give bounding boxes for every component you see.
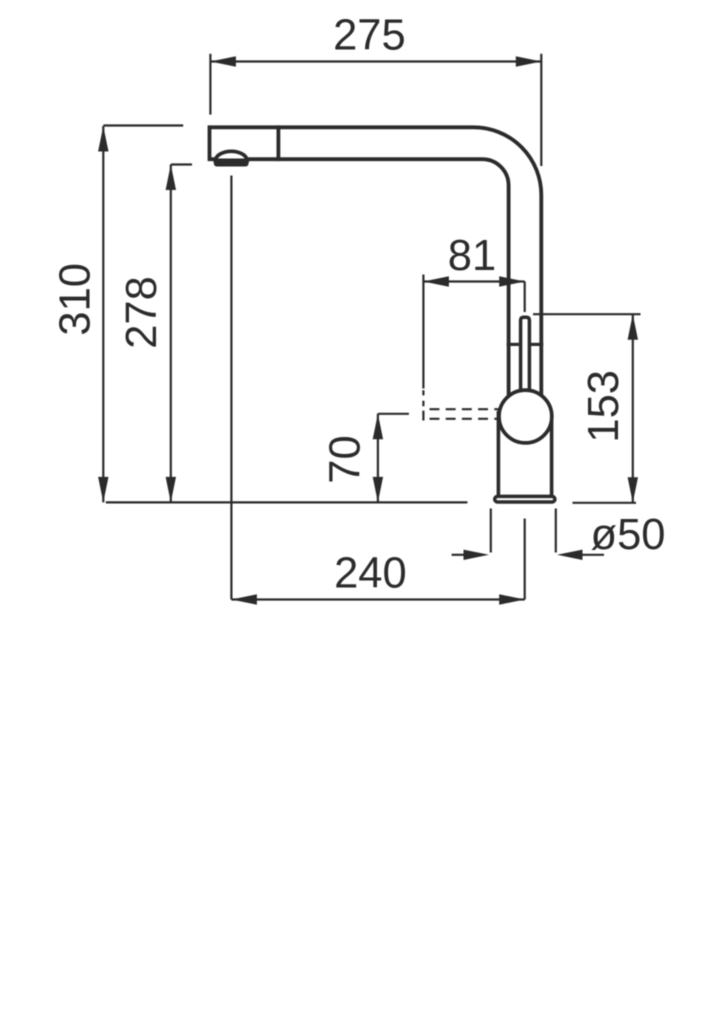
dimension 278 arrow down xyxy=(166,477,176,503)
spout outline xyxy=(210,127,542,398)
dimension 81 arrow left xyxy=(423,276,449,286)
dimension 240 arrow left xyxy=(231,594,257,604)
svg-text:310: 310 xyxy=(51,263,99,336)
dimension 310 arrow up xyxy=(98,126,108,152)
hose dashed line top xyxy=(430,408,502,410)
dimension ø50 right arrow xyxy=(557,550,583,560)
svg-text:ø50: ø50 xyxy=(591,511,666,559)
spout head divider xyxy=(276,125,280,161)
dimension 278 top extension xyxy=(171,163,192,165)
svg-text:81: 81 xyxy=(448,232,496,280)
dimension ø50 right extension xyxy=(555,509,557,553)
ball joint xyxy=(499,390,552,443)
dimension 275 arrow right xyxy=(516,56,542,66)
dimension 70 arrow up xyxy=(373,414,383,440)
dimension ø50 right arrow tail xyxy=(583,554,605,556)
dimension 70 line xyxy=(377,414,379,503)
dimension 310 top extension xyxy=(103,124,183,126)
body left side xyxy=(497,411,501,495)
dimension 310 line xyxy=(102,126,104,502)
dimension 278 line xyxy=(170,165,172,503)
dimension 81 line xyxy=(423,280,524,282)
dimension 153 arrow down xyxy=(628,477,638,503)
base flange xyxy=(495,496,555,502)
dimension 240 line xyxy=(231,598,524,600)
baseline left segment xyxy=(106,501,468,503)
dimension ø50 left arrow xyxy=(464,550,490,560)
dimension 278 arrow up xyxy=(166,165,176,191)
svg-text:240: 240 xyxy=(334,549,407,597)
dimension 275 left extension xyxy=(209,54,211,115)
dimension ø50 left extension xyxy=(490,509,492,553)
dimension 81 left extension solid xyxy=(422,275,424,389)
dimension 70 top extension xyxy=(378,413,409,415)
dimension 153 arrow up xyxy=(628,314,638,340)
pipe joint line left segment xyxy=(507,343,519,346)
dimension ø50 left arrow tail xyxy=(452,554,465,556)
dimension 275 arrow left xyxy=(210,56,236,66)
lever handle xyxy=(521,317,530,398)
outlet centerline / 240 left extension xyxy=(230,176,232,600)
dimension 81 left extension dashes xyxy=(422,390,424,420)
dimension 240 right extension xyxy=(524,519,526,600)
dimension 70 arrow down xyxy=(373,477,383,503)
dimension 153 line xyxy=(632,314,634,503)
dimension 275 right extension xyxy=(540,54,542,166)
dimension 81 arrow right xyxy=(499,276,525,286)
svg-text:70: 70 xyxy=(322,435,370,483)
aerator base slab xyxy=(214,160,249,167)
body right side xyxy=(550,421,554,495)
svg-text:278: 278 xyxy=(118,276,166,349)
aerator dome xyxy=(215,151,247,160)
hose dashed line bottom xyxy=(430,418,502,420)
dimension 310 arrow down xyxy=(98,477,108,503)
dimension 153 top extension xyxy=(533,313,641,315)
svg-text:153: 153 xyxy=(580,370,628,443)
baseline right segment xyxy=(573,502,637,504)
pipe joint line right segment xyxy=(531,343,543,346)
dimension 240 arrow right xyxy=(499,594,525,604)
dimension 275 line xyxy=(210,60,541,62)
svg-text:275: 275 xyxy=(333,11,406,59)
dimension 81 right extension xyxy=(524,282,526,313)
